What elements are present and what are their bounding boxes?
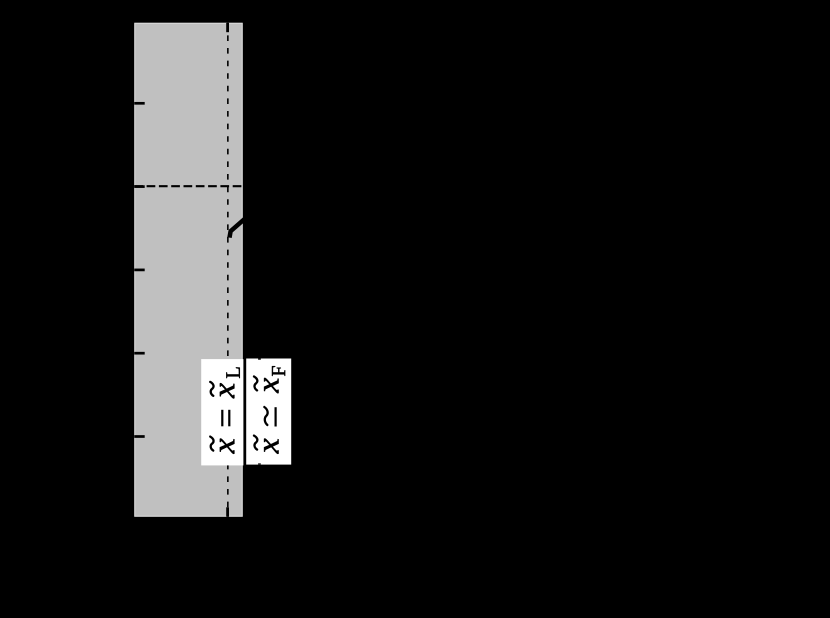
y-axis tick 5 xyxy=(134,435,144,438)
subscript L xyxy=(226,367,239,378)
simeq (tilde over bar) xyxy=(264,407,267,425)
label text x ~= x_F (rotated 90deg) xyxy=(254,366,285,454)
y-axis tick 4 xyxy=(134,352,144,355)
y-axis tick 1 xyxy=(134,102,144,105)
solid vertical line x = x_F (mostly hidden: black on black / under label box) xyxy=(258,357,261,466)
label box x ~= x_F xyxy=(246,359,291,465)
math italic x with tilde xyxy=(264,439,278,454)
math italic x with tilde xyxy=(220,439,234,454)
label box x = x_L xyxy=(201,359,243,465)
label text x = x_L (rotated 90deg) xyxy=(210,367,240,453)
y-axis tick 2 xyxy=(134,185,144,188)
y-axis tick 3 xyxy=(134,269,144,272)
x-axis top tick at x_L xyxy=(226,23,229,32)
math italic x with tilde (x_L) xyxy=(220,383,234,398)
thick curve segment crossing the shaded band xyxy=(230,218,246,237)
x_F line bleed notch at box bottom edge xyxy=(258,463,261,464)
dashed horizontal line xyxy=(134,185,242,187)
x-axis bottom tick at x_L xyxy=(226,507,229,516)
shaded region (axvspan) xyxy=(134,23,242,517)
dashed vertical line x = x_L xyxy=(227,23,229,517)
equals sign xyxy=(221,410,223,427)
subscript F xyxy=(272,366,285,376)
x_F line bleed notch at box top edge xyxy=(258,359,261,360)
light inner edge of shaded region xyxy=(135,23,242,516)
math italic x with tilde (x_F) xyxy=(264,378,278,393)
